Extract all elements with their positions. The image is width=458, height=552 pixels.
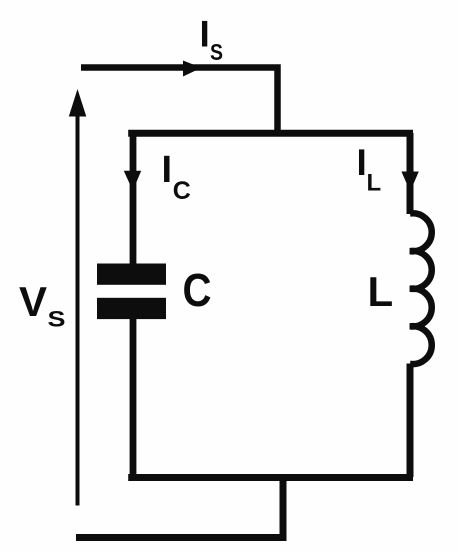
arrowhead Vs	[69, 89, 87, 117]
wire tank top	[128, 130, 413, 137]
svg-text:C: C	[173, 177, 191, 205]
wire left branch upper	[130, 133, 137, 265]
capacitor C plate bottom	[97, 298, 166, 319]
wire right branch lower	[407, 364, 414, 478]
label Is	[200, 13, 224, 65]
wire tank bottom	[128, 474, 413, 481]
arrowhead Is	[183, 61, 202, 77]
svg-text:V: V	[19, 278, 47, 325]
wire left branch lower	[130, 318, 137, 477]
arrowhead Ic	[124, 171, 141, 191]
svg-text:C: C	[183, 264, 212, 316]
voltage source arrow Vs line	[76, 112, 80, 506]
svg-text:I: I	[162, 149, 173, 191]
label Ic	[162, 149, 191, 205]
wire right branch upper	[407, 133, 414, 214]
capacitor C plate top	[97, 264, 166, 285]
wire top source wire	[81, 68, 278, 134]
svg-text:I: I	[200, 13, 210, 54]
svg-text:I: I	[357, 142, 367, 183]
label Vs	[19, 278, 66, 332]
svg-text:S: S	[48, 307, 66, 332]
svg-text:S: S	[210, 39, 223, 65]
svg-text:L: L	[367, 170, 382, 197]
wire bottom return wire	[76, 475, 283, 538]
arrowhead IL	[401, 172, 418, 192]
label IL	[357, 142, 382, 197]
inductor L coil	[410, 213, 432, 364]
svg-text:L: L	[368, 268, 394, 315]
